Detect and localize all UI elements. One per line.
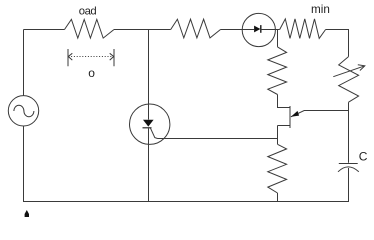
resistor R3 xyxy=(268,47,287,95)
resistor R1 (oad) xyxy=(65,19,115,38)
svg-text:C: C xyxy=(359,150,368,164)
label o xyxy=(88,66,95,80)
wire SCR cathode xyxy=(148,128,150,201)
wire top-left horizontal xyxy=(24,29,65,31)
label C xyxy=(359,150,368,164)
wire B1 lead xyxy=(277,126,279,145)
wire pot to cap xyxy=(348,102,350,163)
source V1 xyxy=(8,96,38,126)
label min xyxy=(311,3,330,16)
wire left upper xyxy=(23,30,25,96)
svg-text:oad: oad xyxy=(79,6,97,18)
wire top right xyxy=(326,30,349,57)
resistor R2 xyxy=(171,19,221,38)
wire top mid 1 xyxy=(114,29,171,31)
diode D1 xyxy=(254,25,276,33)
wire R3 to UJT B2 xyxy=(278,95,291,108)
wire SCR gate xyxy=(158,138,278,140)
diode D1 circle xyxy=(242,13,275,46)
dimension arrow o xyxy=(68,49,114,66)
capacitor C xyxy=(338,164,359,172)
resistor Rmin xyxy=(280,19,326,39)
svg-text:o: o xyxy=(88,66,95,80)
wire SCR anode xyxy=(148,30,150,120)
arrowhead bottom-left xyxy=(25,210,29,217)
SCR Q1 xyxy=(130,104,170,144)
wire R3 top lead xyxy=(277,30,279,47)
wire top mid 2 xyxy=(221,29,255,31)
wire left lower xyxy=(23,126,25,201)
label oad xyxy=(79,6,97,18)
wire RB1 bottom lead xyxy=(277,193,279,202)
UJT emitter xyxy=(291,111,349,117)
svg-text:min: min xyxy=(311,3,330,16)
resistor RB1 xyxy=(268,144,287,193)
wire cap to bottom xyxy=(348,168,350,202)
wire bottom xyxy=(23,201,349,203)
wire top mid 3 xyxy=(277,29,280,31)
potentiometer P1 xyxy=(333,57,365,103)
UJT Q2 xyxy=(278,106,291,128)
